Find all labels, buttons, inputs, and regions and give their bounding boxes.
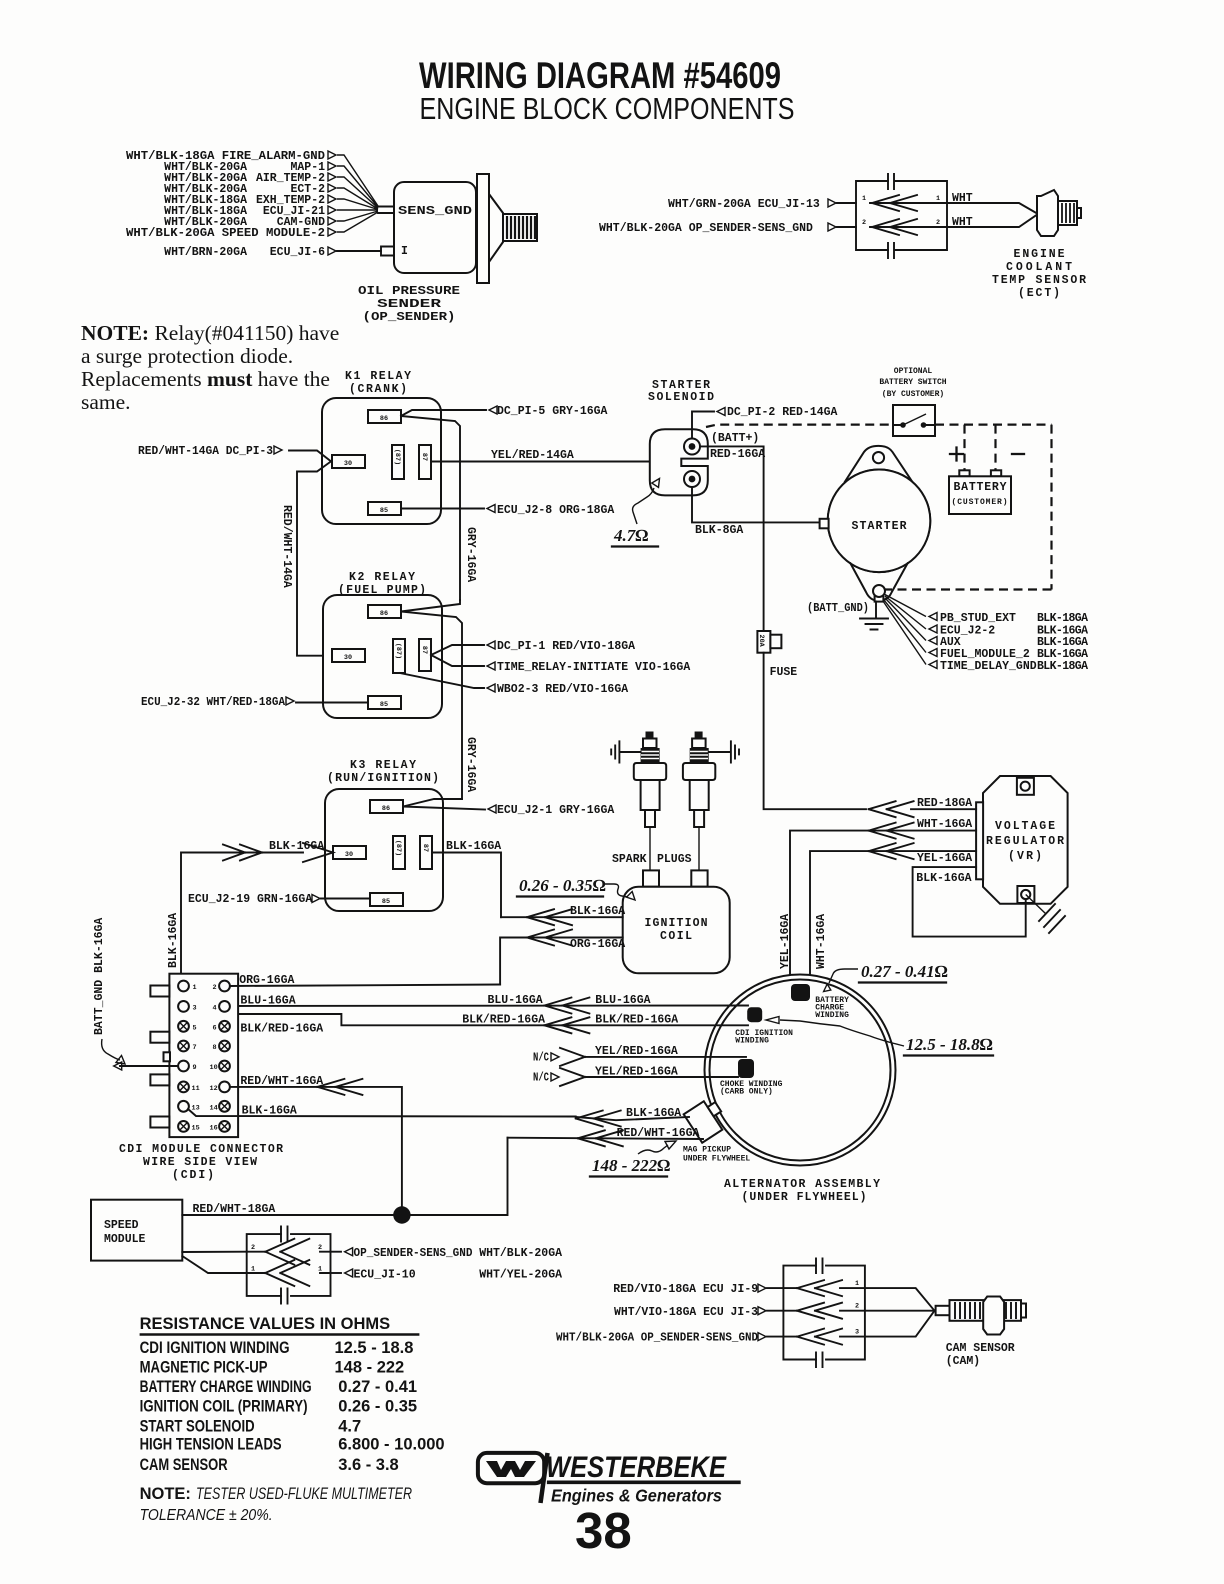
svg-text:BLU-16GA: BLU-16GA [240,995,295,1008]
stub AUX [929,636,1088,649]
VR connector strip [976,802,983,879]
wire ORG-16GA into coil with chevrons [500,938,623,985]
svg-text:2: 2 [862,219,866,227]
svg-text:87: 87 [420,646,428,654]
starter solenoid body [650,429,708,495]
starter left terminal [820,519,829,529]
svg-text:(CUSTOMER): (CUSTOMER) [952,498,1008,507]
CDI pins row3: 5,6 crossed [178,1021,230,1032]
svg-text:7: 7 [193,1044,197,1052]
svg-text:OPTIONAL: OPTIONAL [894,367,933,376]
label ECU_J2-32 WHT/RED-18GA [141,696,294,709]
ECT connector chevrons row2 [837,219,947,235]
caption OIL PRESSURE SENDER (OP_SENDER) [358,285,460,324]
speed connector row 2 [247,1251,331,1253]
battery - symbol [1012,453,1024,455]
spark plug 2 ground [709,741,739,762]
svg-text:0.26 - 0.35Ω: 0.26 - 0.35Ω [519,876,606,895]
wire YEL/RED-16GA N/C row 2 [533,1066,738,1087]
stub PB_STUD_EXT [929,612,1088,625]
svg-text:BLK-8GA: BLK-8GA [695,524,743,537]
ECT wire label OP_SENDER-SENS_GND [599,222,836,235]
svg-text:(87): (87) [394,840,402,856]
wire junction to mag pickup riser [402,1138,508,1215]
svg-text:11: 11 [192,1085,200,1093]
svg-text:a surge protection diode.: a surge protection diode. [81,344,293,368]
ECT wires to sensor [947,203,1038,227]
CDI pins row7: 13 open, 14 crossed [178,1101,230,1112]
svg-text:HIGH TENSION LEADS: HIGH TENSION LEADS [140,1436,282,1454]
wire RED-16GA from BATT+ terminal to fuse [700,446,764,631]
svg-text:N/C: N/C [533,1072,549,1085]
svg-text:RED/WHT-16GA: RED/WHT-16GA [240,1075,323,1088]
svg-text:148 - 222: 148 - 222 [335,1359,405,1377]
label DC_PI-5 GRY-16GA [489,405,608,418]
alternator outer circle [705,975,896,1166]
svg-text:BLU-16GA: BLU-16GA [488,994,543,1007]
svg-text:WHT/BLK-20GA SPEED MODULE-2: WHT/BLK-20GA SPEED MODULE-2 [126,227,325,240]
svg-text:86: 86 [380,415,388,423]
svg-text:WHT/BRN-20GA: WHT/BRN-20GA [164,246,247,259]
K1 pin 87 [419,445,431,479]
Westerbeke logo W box [478,1453,544,1483]
svg-text:12.5 - 18.8: 12.5 - 18.8 [335,1339,414,1357]
svg-text:YEL/RED-14GA: YEL/RED-14GA [491,449,574,462]
K3 relay body [325,789,443,911]
svg-text:MAG PICKUP: MAG PICKUP [683,1146,731,1155]
wire fuse down to VR RED row [764,653,866,810]
voltage regulator octagon [983,776,1068,904]
K1 relay body [322,398,441,524]
svg-text:0.27 - 0.41Ω: 0.27 - 0.41Ω [861,962,948,981]
wire BLK-16GA from pin13 [188,1109,576,1117]
speed connector row 1 [247,1272,331,1274]
ignition coil terminal stubs [643,870,659,886]
svg-text:1: 1 [855,1280,859,1288]
K3 pin 85 [370,893,403,906]
ignition coil body [623,887,730,974]
svg-text:ENGINE: ENGINE [1014,248,1065,261]
wire RED-18GA chevrons [869,801,914,817]
speed module box [91,1200,182,1261]
svg-text:RED-16GA: RED-16GA [710,448,765,461]
svg-text:10: 10 [210,1064,218,1072]
spark plug 1 [634,732,666,871]
svg-text:RED/VIO-18GA ECU JI-9: RED/VIO-18GA ECU JI-9 [613,1283,758,1296]
battery terminal posts [959,470,969,476]
svg-text:I: I [401,245,408,258]
svg-text:(BY CUSTOMER): (BY CUSTOMER) [882,390,944,399]
K1 pin 30 [332,455,365,468]
svg-text:RED/WHT-14GA: RED/WHT-14GA [280,505,293,588]
svg-text:COOLANT: COOLANT [1006,261,1072,274]
oil pressure sender body [394,182,476,273]
svg-text:YEL/RED-16GA: YEL/RED-16GA [595,1066,678,1079]
4.7 ohm pointer squiggle [633,488,654,524]
svg-text:BLK/RED-16GA: BLK/RED-16GA [462,1014,545,1027]
svg-text:K3 RELAY: K3 RELAY [350,759,416,772]
svg-text:30: 30 [345,851,353,859]
starter body circle [828,470,931,573]
svg-text:RED/WHT-14GA DC_PI-3: RED/WHT-14GA DC_PI-3 [138,445,273,458]
svg-text:(CRANK): (CRANK) [349,383,407,396]
wire BLK-16GA CDI pin13 to mag pickup [576,1117,689,1120]
fuse body 20A [757,631,781,653]
svg-text:(OP_SENDER): (OP_SENDER) [363,311,456,324]
cam row 2 [767,1310,935,1312]
svg-text:SPEED: SPEED [104,1219,139,1232]
starter top hole [873,452,884,463]
svg-text:BLK-16GA: BLK-16GA [269,840,324,853]
svg-text:same.: same. [81,390,131,414]
svg-text:WHT/VIO-18GA ECU JI-3: WHT/VIO-18GA ECU JI-3 [614,1306,758,1319]
wire K1-87 YEL/RED-14GA to solenoid [431,461,650,463]
svg-text:BLK-16GA: BLK-16GA [626,1107,681,1120]
svg-text:WIRE SIDE VIEW: WIRE SIDE VIEW [143,1156,257,1169]
svg-text:MAGNETIC PICK-UP: MAGNETIC PICK-UP [140,1359,268,1377]
svg-text:ALTERNATOR ASSEMBLY: ALTERNATOR ASSEMBLY [724,1178,880,1191]
cam connector box with capacitors [783,1259,865,1368]
K2 pin 85 [368,696,401,709]
ECT connector chevrons row1 [837,195,947,211]
svg-text:WINDING: WINDING [735,1037,769,1046]
CDI ignition winding connector blob [747,1007,762,1022]
oil pressure sender flange plate [477,174,489,283]
spark plug 1 ground [611,741,640,762]
wire ORG-16GA from pin2 [230,985,500,987]
CDI pins row4: 7,8 crossed [178,1041,230,1052]
svg-text:RESISTANCE VALUES IN OHMS: RESISTANCE VALUES IN OHMS [140,1315,391,1333]
svg-text:CAM SENSOR: CAM SENSOR [140,1456,228,1474]
svg-text:BLK-18GA: BLK-18GA [1037,660,1088,673]
svg-text:CDI MODULE CONNECTOR: CDI MODULE CONNECTOR [119,1143,283,1156]
svg-text:PLUGS: PLUGS [657,853,692,866]
svg-text:(UNDER FLYWHEEL): (UNDER FLYWHEEL) [742,1191,867,1204]
svg-text:(87): (87) [393,449,401,465]
wire BLK-16GA into coil with chevrons [501,916,623,918]
svg-text:IGNITION COIL (PRIMARY): IGNITION COIL (PRIMARY) [140,1397,308,1415]
cam sensor body [936,1297,1026,1335]
svg-text:BLK-16GA: BLK-16GA [446,840,501,853]
OP sender wire label ECU_JI-21 [164,205,336,218]
svg-text:PB_STUD_EXT: PB_STUD_EXT [940,612,1016,625]
wire BLU-16GA CDI to alternator [229,1005,748,1008]
svg-text:YEL/RED-16GA: YEL/RED-16GA [595,1045,678,1058]
svg-text:WHT/BLK-20GA OP_SENDER-SENS_GN: WHT/BLK-20GA OP_SENDER-SENS_GND [556,1332,758,1345]
wire K1-86 to DC_PI-5 stub and GRY vertical [401,410,486,600]
CDI left tabs [150,986,169,997]
wire DC_PI-3 into K1-30 with arrow junction and vertical to K2-30 [289,451,332,656]
stub TIME_DELAY_GND [929,660,1088,673]
svg-text:TIME_DELAY_GND: TIME_DELAY_GND [940,660,1037,673]
wires K2-87 to stubs DC_PI-1 / TIME_RELAY [431,645,484,666]
wire K3-86 stub ECU_J2-1 [403,799,485,810]
solenoid terminal lower [684,471,700,487]
svg-text:WHT/YEL-20GA: WHT/YEL-20GA [479,1269,562,1282]
svg-text:BATTERY CHARGE WINDING: BATTERY CHARGE WINDING [140,1378,312,1396]
wire K1-85 stub [401,508,484,510]
starter gnd fan wires [883,594,926,665]
OP sender wire label CAM-GND [164,216,336,229]
svg-text:2: 2 [251,1244,255,1252]
wire ECU_J2-19 to K3-85 [188,893,320,906]
ECT connector box with capacitor breaks [856,174,947,258]
svg-text:30: 30 [344,654,352,662]
svg-text:WHT/BLK-20GA OP_SENDER-SENS_GN: WHT/BLK-20GA OP_SENDER-SENS_GND [599,222,813,235]
wire K3-87 BLK-16GA right to ignition coil [432,853,501,918]
svg-text:38: 38 [575,1502,632,1559]
svg-text:NOTE: Relay(#041150) have: NOTE: Relay(#041150) have [81,321,339,345]
svg-text:5: 5 [193,1024,197,1032]
ECT sensor threads [1058,201,1081,225]
svg-text:6.800 - 10.000: 6.800 - 10.000 [338,1436,444,1454]
CDI pins row5: 9 open, 10 crossed [178,1061,230,1072]
svg-text:RED/WHT-16GA: RED/WHT-16GA [617,1127,700,1140]
wire ECU_J2-32 to K2-85 [296,702,368,704]
wire ECU_JI-6 to sender [337,250,381,252]
K1 pin 85 [368,502,401,515]
wire BLK-8GA solenoid to starter [692,487,820,522]
choke winding connector blob [738,1059,754,1078]
K3 pin 87 [420,836,432,869]
svg-text:3: 3 [855,1329,859,1337]
CDI pins row1: 1 open, 2 open [178,981,230,992]
svg-text:DC_PI-2 RED-14GA: DC_PI-2 RED-14GA [727,406,838,419]
svg-text:1: 1 [318,1266,322,1274]
svg-text:15: 15 [192,1124,200,1132]
svg-text:85: 85 [382,898,390,906]
wire BLK-16GA from VR around to ground ear [913,867,1026,937]
svg-text:OIL PRESSURE: OIL PRESSURE [358,285,460,298]
svg-text:DC_PI-1 RED/VIO-18GA: DC_PI-1 RED/VIO-18GA [497,640,635,653]
svg-text:YEL-16GA: YEL-16GA [779,914,792,969]
starter bottom point [850,563,908,601]
SENS_GND stub double line [378,207,394,214]
svg-text:CAM SENSOR: CAM SENSOR [946,1342,1015,1355]
svg-text:ECU_J2-1 GRY-16GA: ECU_J2-1 GRY-16GA [497,804,614,817]
svg-text:2: 2 [936,219,940,227]
svg-text:CDI IGNITION WINDING: CDI IGNITION WINDING [140,1339,290,1357]
svg-text:12.5 - 18.8Ω: 12.5 - 18.8Ω [906,1035,993,1054]
wire K2-(87) to WBO2-3 stub [400,673,484,688]
wire YEL-16GA from VR to alternator [810,851,976,984]
wire WHT-16GA from VR to alternator [790,831,976,985]
svg-text:(ECT): (ECT) [1018,287,1060,300]
spark plug 2 [683,732,715,871]
cam row 3 [767,1311,935,1337]
alternator inner circle [710,980,891,1161]
svg-text:BLK-16GA: BLK-16GA [570,905,625,918]
wire YEL/RED-16GA N/C row 1 [533,1045,746,1066]
svg-text:N/C: N/C [533,1052,549,1065]
svg-text:1: 1 [936,195,940,203]
svg-text:TIME_RELAY-INITIATE VIO-16GA: TIME_RELAY-INITIATE VIO-16GA [497,661,690,674]
VR ground [1026,895,1046,915]
svg-text:0.26 - 0.35: 0.26 - 0.35 [338,1397,417,1415]
svg-text:BLU-16GA: BLU-16GA [595,994,650,1007]
cam row 1 [767,1288,935,1311]
svg-text:WHT/GRN-20GA ECU_JI-13: WHT/GRN-20GA ECU_JI-13 [668,198,820,211]
svg-text:WESTERBEKE: WESTERBEKE [546,1451,727,1484]
svg-text:87: 87 [420,453,428,461]
stub FUEL_MODULE_2 [929,648,1088,661]
wire DC_PI-2 stub [692,412,714,439]
svg-text:86: 86 [382,805,390,813]
svg-text:BLK-16GA: BLK-16GA [916,872,971,885]
junction dot [393,1206,410,1223]
svg-text:TESTER USED-FLUKE MULTIMETER: TESTER USED-FLUKE MULTIMETER [196,1485,412,1503]
speed module wires to connector [182,1252,246,1273]
svg-text:(87): (87) [394,643,402,659]
wire GRY into K2-86 and branch down to K3 [401,600,462,799]
K3 pin (87) [393,836,405,869]
svg-text:STARTER: STARTER [852,520,907,533]
svg-text:1: 1 [862,195,866,203]
svg-text:ORG-16GA: ORG-16GA [570,938,625,951]
OP sender wire label ECT-2 [164,183,336,196]
svg-text:ECU_J2-8 ORG-18GA: ECU_J2-8 ORG-18GA [497,504,614,517]
label RED/WHT-14GA DC_PI-3 [138,445,282,458]
svg-text:(CDI): (CDI) [172,1169,214,1182]
svg-text:K2 RELAY: K2 RELAY [349,571,415,584]
OP sender wire label EXH_TEMP-2 [164,194,336,207]
svg-text:NOTE:: NOTE: [140,1485,191,1503]
ground under starter [860,602,888,630]
K3 pin 30 [333,846,366,859]
svg-text:UNDER FLYWHEEL: UNDER FLYWHEEL [683,1155,750,1164]
caption ENGINE COOLANT TEMP SENSOR (ECT) [992,248,1086,300]
stub OP_SENDER-SENS_GND WHT/BLK-20GA [331,1251,342,1253]
svg-text:6: 6 [213,1024,217,1032]
wire BLK-16GA from K3-30 left with chevrons down to CDI [181,843,333,981]
wire BLK/RED-16GA CDI pin3 to alternator [188,1009,748,1025]
svg-text:9: 9 [193,1064,197,1072]
OP sender wire label MAP-1 [164,161,336,174]
svg-text:4.7: 4.7 [338,1418,361,1436]
K2 pin (87) [393,639,405,673]
svg-text:ECU_JI-6: ECU_JI-6 [270,246,325,259]
svg-text:86: 86 [380,610,388,618]
svg-text:3.6 - 3.8: 3.6 - 3.8 [338,1456,399,1474]
svg-text:4.7Ω: 4.7Ω [613,526,648,545]
svg-text:OP_SENDER-SENS_GND: OP_SENDER-SENS_GND [354,1247,473,1260]
OP sender wire label ECU_JI-6 [164,246,336,259]
svg-text:IGNITION: IGNITION [645,917,708,930]
svg-text:4: 4 [213,1004,217,1012]
K1 pin 86 [368,410,401,423]
svg-text:(CAM): (CAM) [946,1355,981,1368]
svg-text:SOLENOID: SOLENOID [648,391,714,404]
svg-text:(RUN/IGNITION): (RUN/IGNITION) [327,772,439,785]
svg-text:BLK-18GA: BLK-18GA [1037,612,1088,625]
speed connector box with capacitors [247,1227,331,1304]
K2 pin 30 [332,649,365,662]
svg-text:WHT-16GA: WHT-16GA [917,818,972,831]
svg-text:148 - 222Ω: 148 - 222Ω [592,1156,670,1175]
battery box [949,476,1011,514]
CDI pins row6: 11 crossed, 12 open [178,1082,230,1093]
svg-text:(BATT+): (BATT+) [711,432,759,445]
svg-text:ENGINE BLOCK COMPONENTS: ENGINE BLOCK COMPONENTS [420,91,795,126]
svg-text:(CARB ONLY): (CARB ONLY) [720,1088,773,1097]
oil pressure sender cone [489,194,503,262]
svg-text:BATTERY SWITCH: BATTERY SWITCH [879,378,946,387]
VR top mounting ear [1017,778,1034,795]
svg-text:ECU_JI-10: ECU_JI-10 [354,1269,416,1282]
svg-text:START SOLENOID: START SOLENOID [140,1418,255,1436]
svg-text:VOLTAGE: VOLTAGE [995,820,1055,833]
svg-text:2: 2 [213,984,217,992]
dashed wire switch to battery + and - and around to starter [885,425,1052,590]
svg-text:2: 2 [318,1244,322,1252]
svg-text:WHT/BLK-20GA: WHT/BLK-20GA [479,1247,562,1260]
OP sender fan wires to SENS_GND [337,155,378,232]
solenoid terminal BATT+ [684,439,700,455]
oil pressure sender threads [503,214,537,241]
svg-text:BATT_GND BLK-16GA: BATT_GND BLK-16GA [93,918,106,1035]
svg-text:85: 85 [380,701,388,709]
svg-text:0.27 - 0.41: 0.27 - 0.41 [338,1378,417,1396]
0.26 pointer squiggle to coil [605,884,628,897]
svg-text:BLK-16GA: BLK-16GA [167,913,180,968]
svg-text:13: 13 [192,1104,200,1112]
svg-text:12: 12 [210,1085,218,1093]
svg-text:FUSE: FUSE [770,666,798,679]
NOTE paragraph [81,321,339,414]
Westerbeke logo slash [541,1453,548,1503]
svg-text:20A: 20A [757,635,765,648]
battery + symbol [950,448,963,461]
svg-text:BLK/RED-16GA: BLK/RED-16GA [595,1014,678,1027]
svg-text:GRY-16GA: GRY-16GA [464,527,477,582]
OP sender wire label WHT/BLK-18GA FIRE_ALARM-GND [126,150,336,163]
svg-text:WHT-16GA: WHT-16GA [815,914,828,969]
svg-text:8: 8 [213,1044,217,1052]
svg-text:MODULE: MODULE [104,1233,146,1246]
svg-text:87: 87 [421,844,429,852]
CDI pins row8: 15,16 crossed [178,1121,230,1132]
svg-text:RED/WHT-18GA: RED/WHT-18GA [193,1203,276,1216]
svg-text:BLK-16GA: BLK-16GA [242,1105,297,1118]
battery charge winding connector blob [791,984,810,1001]
svg-text:GRY-16GA: GRY-16GA [464,737,477,792]
K2 pin 86 [368,605,401,618]
svg-text:RED-18GA: RED-18GA [917,797,972,810]
svg-text:WIRING DIAGRAM #54609: WIRING DIAGRAM #54609 [419,55,781,96]
wire RED/WHT-16GA junction to mag pickup [508,1138,704,1139]
svg-text:ORG-16GA: ORG-16GA [239,974,294,987]
svg-text:ECU_J2-32 WHT/RED-18GA: ECU_J2-32 WHT/RED-18GA [141,696,285,709]
svg-text:BLK/RED-16GA: BLK/RED-16GA [240,1023,323,1036]
stub ECU_JI-10 WHT/YEL-20GA [331,1272,342,1274]
svg-text:REGULATOR: REGULATOR [986,835,1064,848]
mag pickup [684,1096,730,1142]
OP sender wire label SPEED MODULE-2 [126,227,336,240]
svg-text:ECU_J2-19 GRN-16GA: ECU_J2-19 GRN-16GA [188,893,312,906]
svg-text:(BATT_GND): (BATT_GND) [807,602,869,615]
ECT sensor hex body [1037,190,1058,236]
svg-text:COIL: COIL [660,930,692,943]
K2 relay body [323,595,442,718]
svg-text:YEL-16GA: YEL-16GA [917,852,972,865]
svg-text:85: 85 [380,507,388,515]
svg-text:16: 16 [210,1124,218,1132]
svg-text:3: 3 [193,1004,197,1012]
svg-text:BATTERY: BATTERY [954,481,1007,494]
ECT wire label ECU_JI-13 [668,198,836,211]
starter bottom hole [873,585,885,597]
svg-text:30: 30 [344,460,352,468]
